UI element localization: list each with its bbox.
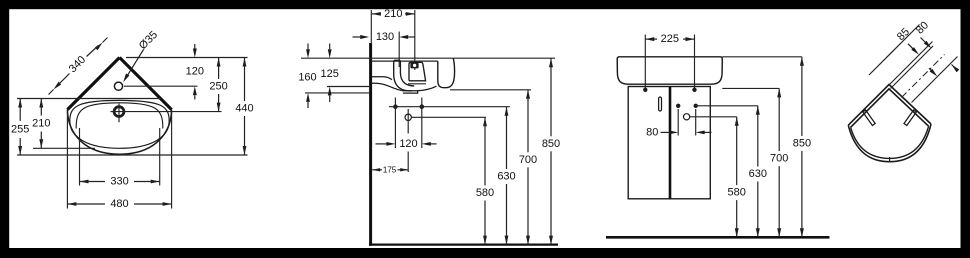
700 reference line view3: [722, 87, 779, 89]
dimension 160: [306, 49, 310, 58]
extension line outer: [912, 57, 958, 103]
corner walls double lines: [848, 85, 931, 126]
svg-text:330: 330: [110, 176, 128, 188]
svg-text:120: 120: [399, 138, 417, 150]
dimension 255 left: [18, 99, 22, 108]
svg-text:210: 210: [32, 118, 50, 130]
arc bottom tick: [889, 157, 891, 163]
svg-text:175: 175: [383, 165, 397, 174]
basin profile drain boss shelf: [408, 83, 426, 85]
basin profile bowl wall: [394, 60, 401, 62]
svg-text:580: 580: [476, 187, 494, 199]
dimension base line: [869, 25, 920, 76]
cabinet outline: [628, 87, 710, 199]
black frame border: [0, 0, 970, 9]
arrow onto outer extension line: [929, 68, 934, 73]
dimension 130: [360, 35, 369, 39]
siphon circle view3 with 580 reference line: [684, 114, 690, 120]
basin profile bottom step: [402, 91, 418, 93]
dimension 580 vertical line: [735, 117, 739, 126]
svg-text:125: 125: [321, 68, 339, 80]
dimension 850 vertical line: [549, 58, 553, 67]
bolt dots view3 with 630 reference line: [676, 104, 680, 108]
svg-text:480: 480: [110, 198, 128, 210]
130 extension line: [398, 32, 400, 68]
dimension 125: [328, 49, 332, 58]
dimension 440 (apex to front edge): [243, 58, 247, 67]
basin profile bottom curve to skirt: [418, 86, 437, 91]
dimension 120 (apex to tap hole): [193, 49, 197, 58]
dimension 700 vertical line: [526, 90, 530, 99]
basin front outline: [617, 57, 722, 84]
dimension 630 vertical line: [505, 107, 509, 116]
bracket tab right: [904, 110, 916, 126]
tap hole extension line right: [124, 85, 198, 87]
arrow at border onto outer extension line: [952, 65, 960, 73]
dimension 580 vertical line: [483, 117, 487, 126]
svg-text:130: 130: [376, 31, 394, 43]
fixing bolt dots with 630 reference line: [393, 104, 398, 109]
fixing hole dots 225: [643, 88, 647, 92]
bolt extension lines down: [394, 98, 396, 149]
svg-text:250: 250: [209, 81, 227, 93]
850 reference line view3: [722, 56, 802, 58]
basin deck back edge line: [17, 98, 161, 100]
drain hole symbol: [114, 107, 124, 117]
wall line left (thick): [67, 58, 119, 110]
tap hole circle: [114, 82, 122, 90]
drain center line extending right (250 reference): [111, 111, 222, 113]
basin profile right skirt: [438, 58, 455, 87]
extension line from apex inner corner: [891, 46, 934, 89]
svg-text:225: 225: [661, 33, 679, 45]
svg-text:210: 210: [384, 8, 402, 20]
front arc double line: [848, 124, 931, 162]
extension lines for 330: [79, 128, 81, 186]
svg-text:255: 255: [11, 124, 29, 136]
svg-text:850: 850: [542, 138, 560, 150]
door handle slot: [659, 97, 662, 111]
700 reference line view2: [450, 89, 531, 91]
left reference line 160: [305, 92, 369, 94]
wall line right (thick): [120, 58, 172, 110]
left reference line 125: [327, 86, 369, 88]
210 extension line: [414, 10, 416, 70]
wall top extension line: [370, 10, 372, 44]
siphon center line: [407, 109, 409, 134]
siphon circle with 580 reference line: [405, 114, 411, 120]
dimension 225 extension lines: [644, 35, 646, 90]
svg-text:580: 580: [728, 187, 746, 199]
basin outer rim curve: [67, 110, 171, 155]
center line dash-dot: [902, 55, 945, 98]
svg-text:160: 160: [298, 71, 316, 83]
wall vertical thick line: [369, 43, 372, 246]
dimension 225: [645, 37, 654, 41]
deck opening oval: [70, 100, 169, 148]
basin profile tap block: [409, 62, 426, 81]
tap hole section hatch: [410, 63, 418, 69]
floor line view 2: [369, 244, 558, 246]
dimension 480 basin width: [67, 202, 76, 206]
floor line view 3: [606, 236, 830, 239]
dimension 210 left: [39, 99, 43, 108]
dimension 120 bolts: [386, 142, 395, 146]
extension line from apex outer corner: [890, 42, 933, 85]
svg-text:700: 700: [519, 154, 537, 166]
dimension 630 vertical line: [756, 106, 760, 115]
front edge line (255/440 reference): [17, 154, 248, 156]
svg-text:850: 850: [793, 137, 811, 149]
apex extension line right: [126, 57, 248, 59]
dimension 340 along wall: [95, 43, 103, 51]
svg-text:80: 80: [646, 126, 658, 138]
svg-text:120: 120: [186, 66, 204, 78]
basin side profile deck inner line: [372, 60, 438, 62]
bowl back shelf curve: [76, 103, 163, 129]
svg-text:630: 630: [749, 168, 767, 180]
cabinet door gap line (thick): [669, 87, 672, 199]
svg-text:700: 700: [770, 153, 788, 165]
bracket tab left: [863, 110, 875, 126]
dimension 210 top: [372, 12, 381, 16]
extension lines for 480: [66, 112, 68, 209]
dimension 850 vertical line: [800, 57, 804, 66]
dimension 175: [372, 168, 380, 171]
svg-text:630: 630: [497, 171, 515, 183]
basin top rim line (850 reference): [301, 57, 555, 59]
dimension 700 vertical line: [777, 88, 781, 97]
basin profile bracket at wall: [372, 77, 392, 80]
210 reference short line: [33, 147, 95, 149]
dimension 250 (apex to drain): [217, 58, 221, 67]
dimension 330 bowl width: [80, 180, 89, 184]
svg-text:440: 440: [235, 103, 253, 115]
